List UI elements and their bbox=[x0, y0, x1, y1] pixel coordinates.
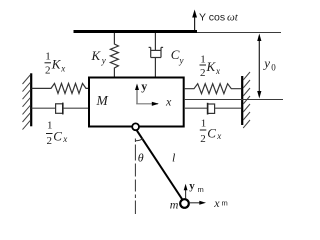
damper Cx/2 left bbox=[32, 103, 90, 115]
svg-text:x: x bbox=[215, 66, 220, 76]
svg-text:θ: θ bbox=[138, 151, 144, 165]
svg-text:x: x bbox=[216, 131, 221, 141]
svg-text:1: 1 bbox=[201, 117, 207, 129]
svg-text:1: 1 bbox=[47, 120, 53, 132]
label 1/2 Cx right bbox=[200, 117, 222, 145]
svg-text:M: M bbox=[96, 93, 109, 108]
label 1/2 Cx left bbox=[46, 120, 67, 148]
svg-text:1: 1 bbox=[45, 51, 51, 63]
svg-text:2: 2 bbox=[47, 135, 53, 147]
svg-text:y: y bbox=[262, 56, 270, 71]
left wall bbox=[30, 73, 32, 126]
pivot joint circle bbox=[132, 123, 139, 130]
angle arc theta bbox=[136, 139, 144, 141]
svg-text:C: C bbox=[207, 126, 216, 141]
svg-text:K: K bbox=[51, 57, 62, 72]
svg-text:x: x bbox=[62, 134, 67, 144]
mass M bbox=[89, 78, 184, 127]
svg-text:x: x bbox=[165, 95, 172, 109]
svg-text:C: C bbox=[171, 47, 180, 62]
svg-text:2: 2 bbox=[200, 133, 206, 145]
svg-text:y: y bbox=[101, 56, 106, 66]
svg-text:m: m bbox=[222, 199, 228, 208]
right wall bbox=[241, 76, 243, 125]
top bar (excited base) bbox=[74, 30, 198, 33]
pendulum bob m bbox=[180, 199, 189, 208]
label 1/2 Kx right bbox=[200, 54, 221, 80]
svg-text:2: 2 bbox=[45, 65, 51, 77]
spring Kx/2 left bbox=[32, 83, 90, 93]
svg-text:m: m bbox=[170, 198, 179, 212]
label Y cos wt bbox=[199, 12, 239, 24]
pendulum rod l bbox=[136, 130, 183, 201]
svg-text:0: 0 bbox=[271, 63, 276, 73]
axes xm-ym at bob bbox=[184, 180, 228, 210]
top reference line bbox=[197, 32, 281, 34]
svg-text:x: x bbox=[213, 196, 220, 210]
svg-text:ωt: ωt bbox=[227, 12, 239, 24]
excitation arrow bbox=[192, 10, 197, 31]
spring Ky bbox=[110, 33, 118, 77]
label Ky bbox=[91, 48, 106, 66]
svg-text:m: m bbox=[198, 185, 204, 194]
axes x-y in mass bbox=[135, 79, 172, 109]
svg-text:y: y bbox=[189, 180, 195, 192]
y0 dimension arrow bbox=[257, 34, 276, 99]
pendulum centerline (dashed) bbox=[134, 139, 136, 215]
damper Cx/2 right bbox=[184, 103, 241, 115]
lower reference line bbox=[184, 99, 283, 101]
right wall hatching bbox=[243, 72, 250, 128]
svg-text:y: y bbox=[179, 56, 184, 66]
svg-text:K: K bbox=[206, 59, 217, 74]
damper Cy bbox=[149, 33, 164, 77]
svg-text:Y cos: Y cos bbox=[199, 12, 225, 24]
svg-text:K: K bbox=[91, 48, 102, 63]
svg-text:1: 1 bbox=[200, 54, 206, 66]
svg-text:C: C bbox=[53, 129, 62, 144]
svg-text:y: y bbox=[141, 79, 147, 93]
spring Kx/2 right bbox=[184, 84, 241, 94]
left wall hatching bbox=[23, 75, 31, 130]
svg-text:x: x bbox=[60, 63, 65, 73]
label Cy bbox=[171, 47, 184, 66]
label 1/2 Kx left bbox=[45, 51, 66, 77]
svg-text:2: 2 bbox=[200, 67, 206, 79]
